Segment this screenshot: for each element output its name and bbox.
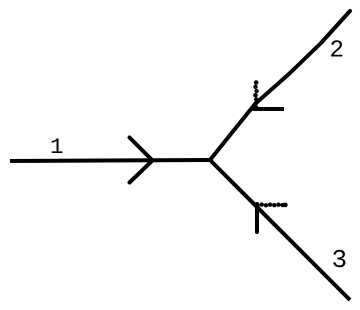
arrowhead on line 3: solid vertical barb (255, 204, 259, 232)
arrowhead on line 3: beaded horizontal barb (255, 202, 287, 207)
svg-text:1: 1 (50, 134, 64, 160)
wire: incoming horizontal line 1 (10, 160, 210, 161)
svg-text:2: 2 (330, 38, 344, 65)
wire: upper-right line 2 (210, 11, 350, 160)
arrowhead on line 2: beaded vertical barb (253, 80, 259, 109)
arrowhead on line 1 (points right toward vertex) (130, 138, 153, 183)
svg-text:3: 3 (332, 245, 348, 275)
arrowhead on line 2: solid horizontal barb (253, 107, 285, 111)
wire: lower-right line 3 (210, 160, 350, 300)
